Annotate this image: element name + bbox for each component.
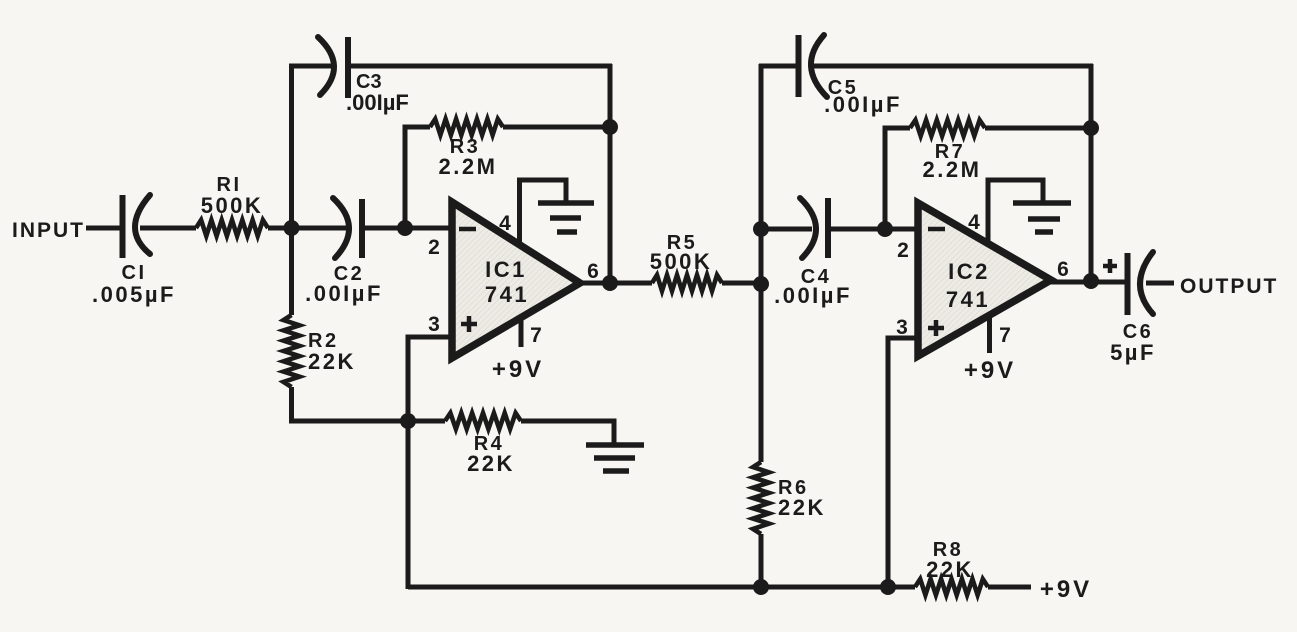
node junction R2/R4/pin3 line — [400, 413, 416, 429]
resistor R5 — [652, 275, 722, 291]
wire riser node to top rail — [289, 64, 294, 230]
op-amp IC2 — [918, 203, 1051, 356]
wire feedback vertical IC1 — [608, 64, 613, 283]
svg-text:+9V: +9V — [964, 357, 1016, 384]
svg-text:6: 6 — [587, 260, 599, 283]
svg-text:6: 6 — [1057, 258, 1069, 281]
wire IC2 pin 7 — [987, 313, 992, 353]
capacitor C2 — [333, 198, 362, 258]
IC2 non-inverting input sign — [928, 320, 944, 336]
svg-text:741: 741 — [946, 287, 990, 312]
svg-text:2.2M: 2.2M — [439, 154, 498, 179]
node junction C2/R3 leg — [397, 220, 413, 236]
ground at IC2 pin 4 — [1013, 203, 1071, 232]
resistor R2 — [284, 315, 300, 387]
svg-text:CI: CI — [122, 262, 147, 284]
wire R5 to stage 2 riser — [722, 281, 763, 286]
node junction input/C2/riser — [284, 220, 300, 236]
node junction R7/feedback — [1083, 120, 1099, 136]
wire node to R4 — [408, 419, 445, 424]
capacitor C5 — [799, 35, 828, 97]
svg-text:4: 4 — [968, 211, 980, 234]
svg-text:IC1: IC1 — [485, 257, 527, 282]
C6 polarity sign — [1103, 259, 1117, 273]
svg-text:7: 7 — [999, 324, 1011, 347]
svg-text:3: 3 — [896, 316, 908, 339]
capacitor C1 — [123, 195, 151, 258]
wire top rail 2 right — [814, 64, 1093, 69]
svg-text:2: 2 — [897, 239, 909, 262]
resistor R7 — [910, 120, 985, 136]
svg-text:2.2M: 2.2M — [923, 157, 982, 182]
svg-text:500K: 500K — [650, 249, 713, 274]
wire bottom rail to R8 — [888, 585, 915, 590]
op-amp IC1 — [452, 202, 580, 358]
svg-text:3: 3 — [428, 313, 440, 336]
svg-text:22K: 22K — [778, 495, 826, 520]
wire C4 line left — [761, 227, 812, 232]
wire R3 to feedback vertical — [503, 125, 612, 130]
svg-text:OUTPUT: OUTPUT — [1180, 275, 1278, 298]
wire R3 left leg — [405, 127, 430, 230]
IC2 inverting input sign — [928, 227, 945, 232]
node junction bottom rail/IC2 pin3 — [880, 579, 896, 595]
capacitor C3 — [318, 37, 348, 98]
capacitor C4 — [800, 198, 828, 258]
node junction IC1 output/feedback — [602, 275, 618, 291]
svg-text:7: 7 — [530, 324, 542, 347]
node junction riser/R5 — [753, 276, 769, 292]
svg-text:741: 741 — [485, 282, 529, 307]
wire C1 to R1 — [140, 226, 196, 231]
svg-text:4: 4 — [499, 212, 511, 235]
wire IC1 pin 4 to ground — [520, 180, 567, 247]
wire top rail left — [289, 64, 331, 69]
wire R7 to feedback vertical — [985, 126, 1093, 131]
resistor R1 — [196, 220, 268, 236]
node junction C4/R7 leg — [877, 221, 893, 237]
wire R4 to ground — [521, 421, 614, 445]
svg-text:INPUT: INPUT — [12, 219, 85, 242]
wire R7 left leg — [885, 128, 910, 231]
wire IC2 pin 4 to ground — [988, 180, 1043, 245]
capacitor C6 — [1128, 252, 1154, 315]
wire feedback vertical IC2 — [1089, 64, 1094, 281]
svg-text:+9V: +9V — [1040, 576, 1092, 603]
wire R8 to +9V — [988, 585, 1031, 590]
wire top rail 2 left — [759, 64, 800, 69]
IC1 non-inverting input sign — [461, 316, 477, 332]
resistor R8 — [915, 579, 988, 595]
wire bottom rail — [408, 585, 890, 590]
IC1 inverting input sign — [459, 227, 476, 232]
wire IC1 pin 3 to ground rail — [408, 337, 452, 589]
wire top rail right — [348, 64, 612, 69]
ground at R4 — [586, 445, 644, 471]
svg-text:22K: 22K — [926, 557, 974, 582]
svg-text:500K: 500K — [201, 193, 264, 218]
wire IC1 pin 7 — [519, 316, 524, 347]
wire C2 to IC1 pin 2 — [362, 226, 452, 231]
wire stage2 riser vertical — [759, 64, 764, 462]
node junction IC2 output/feedback — [1083, 273, 1099, 289]
wire R6 to bottom rail — [759, 534, 764, 589]
node junction R3/feedback — [602, 119, 618, 135]
wire R2 to bottom node — [292, 387, 411, 421]
svg-text:.005µF: .005µF — [92, 282, 176, 307]
svg-text:22K: 22K — [308, 349, 356, 374]
svg-text:IC2: IC2 — [948, 259, 990, 284]
svg-text:.00IµF: .00IµF — [305, 281, 383, 306]
wire R1 to C2 — [268, 226, 347, 231]
ground at IC1 pin 4 — [538, 203, 594, 232]
resistor R6 — [753, 462, 769, 534]
svg-text:22K: 22K — [467, 451, 515, 476]
svg-text:.00IµF: .00IµF — [774, 283, 852, 308]
wire IC2 pin 3 line — [888, 338, 918, 589]
wire C4 to IC2 pin 2 — [828, 227, 918, 232]
wire IC2 output to C6 — [1049, 280, 1129, 285]
svg-text:2: 2 — [428, 236, 440, 259]
resistor R4 — [445, 413, 521, 429]
wire C6 to OUTPUT — [1146, 281, 1174, 286]
resistor R3 — [430, 119, 503, 135]
wire IC1 output to R5 — [578, 281, 652, 286]
svg-text:.00IµF: .00IµF — [824, 92, 902, 117]
node junction bottom rail/R6 — [753, 579, 769, 595]
svg-text:5µF: 5µF — [1110, 340, 1156, 365]
svg-text:.00IµF: .00IµF — [346, 90, 409, 115]
node junction riser/C4 line — [753, 221, 769, 237]
wire riser to R2 — [289, 228, 294, 315]
wire INPUT to C1 — [86, 226, 124, 231]
svg-text:+9V: +9V — [492, 356, 544, 383]
